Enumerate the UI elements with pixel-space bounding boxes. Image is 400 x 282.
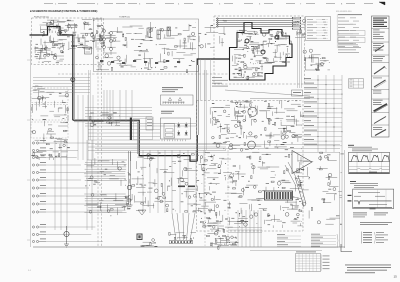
fig1 scope gridlines (356, 152, 358, 173)
thick signal bus zigzag top-left (30, 27, 73, 36)
switch matrix parts (172, 208, 174, 211)
muting wire vertical pair (128, 151, 130, 205)
bottom-right corner bracket (341, 244, 352, 252)
function1 lower parts (47, 54, 50, 57)
ground symbol (64, 244, 69, 247)
tuner FET can 3 (275, 35, 279, 39)
thick bus horizontal to center (73, 120, 197, 161)
function left mid parts (43, 121, 45, 127)
left mid down wires (77, 95, 79, 160)
power transistor bottom-left (64, 231, 69, 236)
IF transformer T3 (167, 27, 171, 36)
bottom-left wire bundle B (84, 193, 125, 195)
fig2 gridline verticals (377, 189, 379, 208)
fig2 footnote labels (353, 212, 367, 215)
parts column sketch small row (373, 77, 382, 80)
fig2 trace level2 (354, 195, 361, 197)
det coil label rows (212, 76, 222, 79)
alignment list rows (338, 13, 362, 16)
speaker wire diagonals lower (295, 177, 304, 207)
parts column dark brush sketch (374, 104, 388, 111)
tuner shield inner parts (262, 56, 264, 59)
antenna input parts (222, 19, 225, 22)
bottom-left vertical wires (54, 140, 56, 230)
alignment sub boxes (338, 31, 365, 36)
long cross wires to amp (95, 144, 340, 146)
lower mid dashed verticals (204, 150, 206, 246)
thick bus node circle (71, 78, 75, 82)
voltage table small (349, 79, 364, 88)
fig1 baseline (349, 161, 389, 163)
vertical drop wires from tuner (103, 90, 105, 122)
voltage grid table (296, 254, 321, 272)
amp lower dense parts (257, 199, 259, 202)
bottom connector cluster A (182, 234, 186, 237)
power transistor Q1 big circle (248, 107, 257, 116)
parts column bottom text (373, 126, 382, 129)
fig2 scope box (353, 189, 394, 208)
bus coil symbols (217, 18, 219, 20)
alignment note rows (338, 44, 358, 47)
bottom-left wire bundle A (87, 159, 127, 161)
fig2 trace main with spike (354, 201, 392, 204)
voltage grid table title (296, 251, 316, 254)
amp feed vertical pair (204, 70, 206, 150)
fig1 bottom dark band (349, 172, 389, 174)
mid bus wires (85, 107, 152, 109)
switch matrix parts right (205, 201, 217, 203)
main amp block dashed border (197, 101, 304, 232)
fig1 waveform humps (349, 155, 389, 161)
svg-text:TUNER (1): TUNER (1) (119, 17, 130, 19)
scope note lines (360, 221, 392, 224)
power supply parts right (319, 57, 322, 60)
bus inline parts (100, 114, 112, 116)
signal table 2 (311, 233, 320, 236)
amp upper dense parts (235, 111, 237, 119)
parts column outer box (372, 16, 390, 137)
fig1 time label box (369, 172, 377, 174)
tuner output vertical wires (297, 30, 299, 88)
right amp long verticals (339, 152, 341, 247)
fig2 left tick labels (348, 195, 352, 196)
amp upper parts (209, 107, 211, 114)
fig1 second trace (349, 168, 389, 170)
parts column screw sketch 1 (375, 46, 384, 52)
bottom connector cluster B (224, 244, 225, 245)
speaker wire diagonals (288, 162, 299, 183)
right amp column parts (327, 157, 328, 160)
shield bar left of indicator (130, 118, 132, 141)
tuner shield thick outline (230, 23, 293, 81)
left margin row letters (27, 59, 30, 61)
left mid sub box 3 (31, 122, 68, 138)
parts column screw sketch 5 (374, 117, 386, 124)
control settings list (361, 232, 363, 244)
fig2 trace level4 (369, 203, 387, 205)
varactor ladder 2 (110, 32, 113, 35)
function1 circuit parts (67, 35, 70, 38)
thick bus vertical trunk (72, 35, 74, 120)
varactor ladder 1 (103, 30, 106, 33)
tuner FET can 1 (245, 39, 249, 43)
muting note text rows (162, 86, 183, 89)
ground symbol 2 (138, 210, 146, 215)
function block 1 dashed border (32, 18, 104, 65)
ribbon fan wires (172, 213, 176, 240)
output IC dark strip (264, 191, 293, 201)
fig2 bottom small label (370, 208, 376, 209)
tuner bus wires (216, 18, 296, 20)
indicator bottom tick row (161, 140, 163, 142)
wire destination list (304, 77, 311, 80)
parts column screw sketch 2 (374, 67, 385, 75)
parts column cell texts (373, 29, 380, 32)
indicator board box (161, 118, 191, 139)
phones label dashes (178, 186, 185, 188)
if bus wires (33, 77, 90, 79)
fig1 lower trace (349, 166, 389, 168)
right mid frame wire (344, 150, 346, 248)
bottom frame step wire (250, 250, 322, 252)
top blocks bottom dashed wire (58, 73, 228, 75)
top ruler fold marks (44, 3, 53, 5)
tuner bottom dark parts row (100, 60, 103, 62)
left mid sub box 2 (31, 105, 68, 121)
svg-text:15: 15 (394, 275, 398, 279)
function block 2 dashed verticals (97, 20, 99, 248)
tuner connector stack (292, 17, 301, 19)
small relay box right (306, 58, 319, 70)
schematic bottom frame wire (33, 246, 345, 248)
small box left of indicator (146, 117, 153, 130)
harness vertical wires (317, 75, 319, 152)
power transistor Q2 big circle (248, 141, 256, 149)
legend triangle symbols (168, 98, 171, 101)
top-left dark labels (41, 28, 49, 30)
svg-text:■ SCHEMATIC DIAGRAM (FUNCTION: ■ SCHEMATIC DIAGRAM (FUNCTION & TUNER/CO… (30, 9, 97, 13)
parts column bottom sketch (375, 130, 386, 136)
svg-text:FUNCTION (1): FUNCTION (1) (34, 17, 49, 19)
parts column header dark text (373, 18, 387, 19)
muting transistor circle (127, 185, 131, 189)
fig2 trace level1 (358, 192, 380, 194)
lower mid bus wires (88, 129, 160, 131)
schematic left frame wire (30, 40, 32, 247)
muting ground (127, 205, 133, 209)
amp label box (292, 90, 303, 96)
IF transformer T1 (147, 28, 151, 37)
thick bus rise to tuner (196, 135, 198, 161)
svg-text:RX-550/RX-350: RX-550/RX-350 (336, 11, 352, 13)
left mid vertical pair (88, 70, 90, 140)
dark connector blob (137, 234, 143, 241)
muting legend box (161, 95, 194, 105)
top-right registration arrow (379, 2, 385, 5)
input jack column (32, 142, 34, 144)
op-amp triangle symbol (292, 151, 312, 174)
voltage table right legend (323, 255, 330, 258)
tuner1 circuit parts (105, 54, 109, 58)
legend tick row (162, 102, 164, 104)
parts column text rows cell 6 (373, 99, 383, 102)
tuner shield lower parts (244, 71, 246, 74)
bottom notes text (345, 264, 391, 267)
ribbon connector row (170, 240, 193, 243)
tuner FET can 2 (261, 50, 265, 54)
fig2 caption lines (350, 181, 356, 182)
indicator inner rect (164, 124, 175, 139)
muting transistor cluster dark (57, 32, 61, 36)
signal table 1 (277, 233, 285, 236)
parts column screw sketch 3 (374, 80, 386, 87)
antenna connector box (85, 47, 92, 54)
long slant wire below shield (225, 90, 310, 96)
fig2 bottom trace (353, 206, 392, 208)
amp bottom bus verticals (237, 210, 239, 247)
indicator LED symbols (178, 125, 180, 127)
tuner right block dashed border (214, 16, 305, 84)
IF transformer T2 (157, 30, 161, 39)
amp bottom horizontals (228, 227, 262, 229)
indicator title rows (161, 110, 174, 113)
bottom small dashes (141, 245, 145, 248)
vertical wires below tuner corner (200, 59, 202, 100)
coil pack list box (306, 17, 331, 41)
bottom right parts cluster (216, 221, 222, 223)
mid vertical wires (142, 150, 144, 213)
fig1 scope box (349, 152, 390, 173)
left mid sub box 1 (31, 88, 68, 103)
tuner output parts (296, 31, 298, 35)
fig1 caption lines (348, 145, 354, 146)
tuner left block border (94, 19, 199, 72)
parts column dividers (372, 28, 390, 30)
